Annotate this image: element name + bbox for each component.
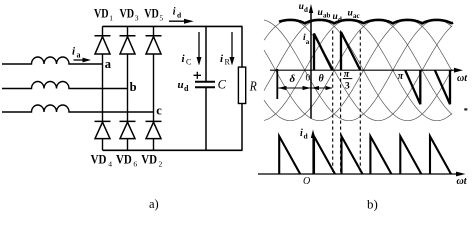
- pulse id 3: [342, 136, 363, 174]
- svg-text:3: 3: [345, 82, 350, 92]
- delta span arrow: [278, 73, 311, 90]
- label VD6: [116, 151, 137, 168]
- svg-text:b): b): [367, 197, 378, 212]
- y axis bottom: [312, 135, 314, 174]
- theta span arrow: [312, 74, 333, 91]
- dashed line 3: [359, 31, 361, 174]
- label VD3: [120, 5, 139, 22]
- wire top rail: [103, 25, 243, 27]
- diode VD5: [146, 36, 162, 54]
- speck artifact: [464, 108, 467, 110]
- label i_a pulse: [303, 33, 310, 46]
- axis label wt bottom: [457, 176, 468, 187]
- svg-text:d: d: [304, 6, 308, 14]
- svg-text:b: b: [130, 80, 137, 94]
- diode VD6: [120, 121, 136, 138]
- svg-text:c: c: [156, 104, 162, 118]
- svg-text:a): a): [149, 197, 159, 211]
- pulse id 6: [430, 136, 451, 174]
- svg-text:π: π: [398, 71, 404, 82]
- svg-text:R: R: [225, 58, 231, 67]
- svg-text:d: d: [338, 16, 342, 24]
- svg-text:a: a: [105, 57, 112, 71]
- svg-text:VD: VD: [94, 5, 109, 20]
- sinusoid lattice: [264, 20, 452, 121]
- svg-text:u: u: [333, 12, 338, 22]
- wire column VD5/VD2: [153, 26, 155, 150]
- pulse id 5: [400, 136, 421, 174]
- svg-text:C: C: [186, 58, 191, 67]
- label VD4: [91, 151, 113, 168]
- capacitor C: [195, 26, 215, 150]
- label VD1: [94, 5, 113, 22]
- svg-text:2: 2: [159, 160, 163, 169]
- label u_d: [178, 79, 190, 93]
- x axis bottom: [258, 173, 458, 175]
- diode VD4: [95, 121, 111, 138]
- negative pulse 1: [405, 70, 420, 104]
- dashed line 1: [332, 31, 334, 174]
- wire column VD3/VD6: [127, 26, 129, 150]
- label u_ab: [318, 8, 331, 20]
- svg-text:4: 4: [108, 160, 112, 169]
- diode VD1: [95, 36, 111, 54]
- svg-text:0: 0: [306, 74, 311, 84]
- current arrow i_a: [72, 46, 91, 63]
- label VD5: [144, 5, 163, 22]
- inductor La (phase a): [2, 57, 103, 64]
- svg-text:ac: ac: [353, 12, 360, 20]
- tick delta start: [276, 69, 278, 99]
- svg-text:ωt: ωt: [457, 176, 468, 187]
- label u_ac: [348, 9, 360, 21]
- svg-text:VD: VD: [120, 5, 135, 20]
- svg-text:O: O: [303, 176, 310, 187]
- svg-text:d: d: [184, 84, 189, 93]
- envelope u_d thick: [279, 20, 453, 24]
- diode VD2: [146, 121, 162, 138]
- svg-text:a: a: [306, 38, 310, 46]
- svg-text:a: a: [77, 51, 81, 60]
- svg-text:C: C: [218, 78, 227, 92]
- axis label wt top: [457, 73, 468, 84]
- dashed line 2: [340, 31, 342, 174]
- current arrow i_C: [182, 32, 202, 67]
- wire column VD1/VD4: [102, 26, 104, 150]
- pulse id 4: [370, 136, 391, 174]
- svg-text:δ: δ: [290, 73, 296, 85]
- svg-text:6: 6: [133, 160, 137, 169]
- svg-text:VD: VD: [141, 151, 157, 166]
- svg-text:u: u: [348, 9, 353, 19]
- label VD2: [141, 151, 162, 168]
- svg-text:1: 1: [109, 13, 113, 22]
- svg-text:θ: θ: [319, 74, 325, 85]
- negative pulse 2: [435, 70, 450, 104]
- current arrow i_R: [220, 32, 235, 67]
- svg-text:u: u: [318, 8, 323, 18]
- pulse i_a 1: [314, 34, 332, 71]
- resistor R: [238, 26, 245, 150]
- label u_d axis: [299, 2, 308, 14]
- x axis top plot: [270, 69, 455, 71]
- label u_d curve: [333, 12, 343, 24]
- svg-text:ab: ab: [323, 12, 331, 20]
- current arrow i_d: [169, 7, 194, 24]
- svg-text:i: i: [173, 7, 176, 18]
- wire bottom rail: [103, 149, 243, 151]
- svg-text:VD: VD: [116, 151, 132, 166]
- svg-text:VD: VD: [91, 151, 107, 166]
- plus sign: [194, 72, 202, 79]
- svg-text:ωt: ωt: [457, 73, 468, 84]
- label i_d axis: [300, 128, 309, 141]
- svg-text:3: 3: [135, 13, 139, 22]
- svg-text:u: u: [178, 79, 184, 91]
- inductor Lb (phase b): [2, 82, 128, 89]
- diode VD3: [120, 36, 136, 54]
- inductor Lc (phase c): [2, 105, 154, 112]
- svg-text:R: R: [249, 80, 257, 95]
- pulse id 1: [279, 136, 300, 174]
- pulse i_a 2: [341, 32, 360, 70]
- pulse id 2: [314, 136, 335, 174]
- y axis top plot: [310, 10, 312, 119]
- svg-text:5: 5: [159, 13, 163, 22]
- label pi/3 fraction: [343, 69, 353, 92]
- svg-text:VD: VD: [144, 5, 159, 20]
